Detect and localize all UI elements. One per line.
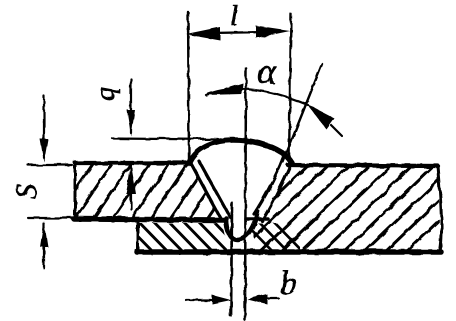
left groove face outer line [190, 162, 221, 219]
bottom edge (band + right plate) [137, 249, 441, 255]
hatching left plate [52, 158, 268, 224]
dimension l: left extension line [188, 12, 189, 160]
arrowhead l right [256, 26, 290, 38]
right plate right edge [438, 166, 441, 251]
hatching backing strip (opposite direction) [120, 218, 246, 255]
b dimension line right [263, 297, 278, 299]
dimension l: right extension line [289, 14, 291, 162]
b dimension line left [186, 299, 216, 301]
S dimension line [43, 96, 45, 158]
left plate bottom edge / band top [74, 219, 224, 220]
band top stub right of root [246, 217, 268, 221]
svg-text:α: α [257, 51, 277, 91]
arrowhead alpha left [205, 83, 243, 95]
root gap left line [231, 203, 232, 316]
svg-text:S: S [10, 184, 43, 199]
right plate top edge [288, 165, 438, 166]
arrowhead b left (points right) [212, 295, 231, 304]
hatching backing strip right of root (crossed) [240, 218, 306, 255]
hatching right plate [192, 160, 456, 256]
centre line of weld [245, 68, 246, 320]
alpha: groove face extension line [283, 64, 322, 162]
dimension l: line [210, 32, 268, 33]
weld cap (reinforcement dome) [189, 140, 292, 163]
S extension top [28, 164, 72, 166]
left plate left edge [74, 163, 77, 217]
q dimension line [130, 79, 132, 133]
S extension bottom [28, 217, 72, 219]
svg-text:b: b [280, 265, 297, 302]
arrowhead b right (points left) [247, 294, 267, 304]
backing strip left edge [137, 221, 140, 251]
svg-text:q: q [90, 87, 121, 101]
arrowhead q up [126, 164, 136, 194]
arrowhead S up [40, 221, 48, 247]
arrowhead q down [127, 110, 135, 136]
arrowhead alpha right [307, 104, 334, 129]
svg-text:l: l [230, 0, 238, 32]
arrowhead S down [40, 139, 48, 162]
alpha leader tail [331, 125, 342, 136]
left groove face inner line (bead fusion edge) [199, 161, 230, 217]
arrowhead l left [186, 27, 220, 40]
alpha arc [206, 89, 308, 105]
root bead (penetration bead) [226, 212, 258, 240]
left plate top edge [75, 161, 189, 165]
right groove face inner line (bead fusion edge) [254, 158, 283, 214]
q reference line at cap top [112, 138, 218, 139]
right groove face outer line [262, 164, 291, 221]
